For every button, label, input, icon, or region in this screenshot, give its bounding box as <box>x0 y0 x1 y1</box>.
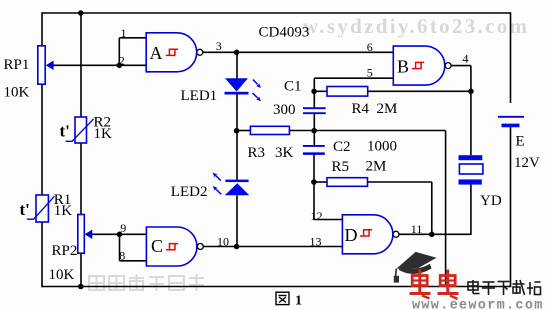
svg-text:10: 10 <box>217 234 229 248</box>
wire gate C input 8 stub vertical <box>119 234 121 260</box>
svg-text:2M: 2M <box>366 159 387 175</box>
svg-text:YD: YD <box>480 193 502 209</box>
resistor R3 <box>250 126 289 134</box>
svg-text:A: A <box>150 43 163 63</box>
wire pin 12 vertical from R5 node <box>313 182 315 220</box>
svg-text:12V: 12V <box>514 155 540 171</box>
svg-text:1K: 1K <box>94 126 113 142</box>
op-amp gate C CD4093 <box>146 227 203 266</box>
node LED1 top junction <box>234 50 240 56</box>
node gate A inputs junction <box>117 63 123 69</box>
svg-text:1: 1 <box>121 26 127 40</box>
op-amp gate A CD4093 <box>146 33 203 72</box>
wire pin 12 horizontal <box>314 219 342 221</box>
wire LED1 anode <box>236 52 238 78</box>
wire C1 node to right corner <box>314 130 445 132</box>
wire second column top to R2 <box>80 13 82 117</box>
wire RP2 wiper to gate C input 9 <box>92 233 146 235</box>
wire LED2 top from R3 node <box>236 131 238 181</box>
wire C2 bottom to R5 node <box>313 155 315 182</box>
node bottom rail junction <box>78 284 84 290</box>
wire gate B output horizontal <box>451 65 471 67</box>
node gate B output R4 YD junction <box>468 89 474 95</box>
svg-text:5: 5 <box>367 65 373 79</box>
battery E <box>498 117 524 126</box>
wire node to R4 <box>314 90 327 92</box>
capacitor C2 <box>303 146 325 154</box>
svg-text:R3: R3 <box>248 145 266 161</box>
node gate C inputs junction <box>117 232 123 238</box>
node R3 left junction <box>234 128 240 134</box>
potentiometer RP1 <box>38 46 54 84</box>
watermark middle chinese <box>89 274 204 291</box>
svg-text:2M: 2M <box>377 101 398 117</box>
svg-text:1K: 1K <box>54 203 73 219</box>
potentiometer RP2 <box>78 215 93 254</box>
wire LED2 cathode to gate C output <box>236 195 238 246</box>
wire RP1 wiper to gate A input 2 <box>53 64 146 66</box>
wire R5 to pin 11 corner horizontal <box>368 181 432 183</box>
wire left rail RP1 to R1 <box>41 84 43 195</box>
svg-text:www.eeworm.com: www.eeworm.com <box>412 299 544 310</box>
svg-text:w.sydzdiy.6to23.com: w.sydzdiy.6to23.com <box>303 14 529 38</box>
wire C1 bottom lead <box>313 114 315 130</box>
wire gate C output to gate D input 13 <box>203 246 342 248</box>
svg-text:3: 3 <box>216 39 222 53</box>
wire node to R5 <box>314 181 327 183</box>
buzzer YD <box>459 155 483 184</box>
LED LED1 <box>225 78 262 101</box>
svg-text:12: 12 <box>311 209 323 223</box>
node gate C output junction <box>234 244 240 250</box>
svg-text:LED2: LED2 <box>171 184 208 200</box>
svg-text:4: 4 <box>463 51 469 65</box>
svg-text:R5: R5 <box>332 159 350 175</box>
svg-text:1: 1 <box>295 294 302 309</box>
svg-text:RP1: RP1 <box>4 57 30 73</box>
wire right corner down to bottom rail <box>445 131 447 287</box>
wire LED1 cathode to R3 node <box>236 94 238 131</box>
wire C1 top lead <box>313 91 315 107</box>
svg-text:RP2: RP2 <box>52 243 78 259</box>
wire second column RP2 to bottom <box>80 253 82 287</box>
wire second column R2 to RP2 <box>80 143 82 215</box>
wire left rail above RP1 <box>41 12 43 46</box>
resistor R5 <box>327 178 368 187</box>
watermark logo graduation cap <box>394 252 437 283</box>
wire gate B input 5 horizontal <box>314 77 393 79</box>
svg-text:C2: C2 <box>333 139 351 155</box>
LED LED2 <box>213 173 250 196</box>
svg-text:R4: R4 <box>352 101 370 117</box>
wire gate A output to gate B input 6 <box>203 51 393 53</box>
label figure caption <box>276 292 302 308</box>
svg-text:LED1: LED1 <box>181 88 218 104</box>
watermark logo red characters <box>410 270 459 300</box>
svg-text:10K: 10K <box>49 267 75 283</box>
wire node to R3 <box>237 130 250 132</box>
wire gate A input 1 stub vertical <box>118 38 120 66</box>
svg-text:6: 6 <box>367 40 373 54</box>
wire C1 node to C2 top <box>313 131 315 146</box>
thermistor R2 <box>66 117 94 143</box>
capacitor C1 <box>303 108 326 113</box>
svg-text:t': t' <box>20 200 30 219</box>
node R4 left C1 top junction <box>311 89 317 95</box>
svg-text:10K: 10K <box>4 85 30 101</box>
wire top rail <box>42 12 511 14</box>
wire gate B output vertical to R4 node <box>470 66 472 92</box>
svg-text:8: 8 <box>119 248 125 262</box>
op-amp gate D CD4093 <box>342 215 399 254</box>
wire left rail R1 to bottom <box>41 222 43 287</box>
svg-text:1000: 1000 <box>367 138 397 154</box>
wire gate B input 5 vertical <box>313 78 315 91</box>
svg-text:9: 9 <box>120 221 126 235</box>
thermistor R1 <box>27 195 55 222</box>
wire junction to YD top <box>470 91 472 155</box>
node R5 left C2 bottom junction <box>311 179 317 185</box>
watermark logo black characters <box>468 280 541 295</box>
svg-text:3K: 3K <box>275 145 294 161</box>
node pin 11 junction <box>429 232 435 238</box>
svg-text:C1: C1 <box>284 78 302 94</box>
resistor R4 <box>327 87 368 97</box>
wire gate D output pin 11 <box>399 233 471 235</box>
svg-text:2: 2 <box>119 53 125 67</box>
wire right rail above battery <box>510 12 512 103</box>
svg-text:B: B <box>397 57 409 77</box>
svg-text:C: C <box>151 236 163 256</box>
wire R5 corner down to pin 11 node <box>431 182 433 234</box>
wire R3 to C1 bottom node <box>289 130 314 132</box>
wire R4 to gate B output column <box>368 90 471 92</box>
op-amp gate B CD4093 <box>393 46 451 85</box>
wire right rail below battery <box>510 127 512 287</box>
wire YD bottom to pin 11 row <box>470 185 472 236</box>
node C1 bottom junction <box>311 128 317 134</box>
svg-text:E: E <box>516 133 525 149</box>
wire bottom rail <box>42 286 511 288</box>
svg-text:D: D <box>345 225 358 245</box>
svg-text:300: 300 <box>273 102 296 118</box>
wire gate A input 1 horizontal <box>119 37 146 39</box>
svg-text:t': t' <box>60 122 70 141</box>
svg-text:CD4093: CD4093 <box>259 25 310 41</box>
wire gate C input 8 horizontal <box>120 260 147 262</box>
node top rail junction <box>78 10 84 16</box>
